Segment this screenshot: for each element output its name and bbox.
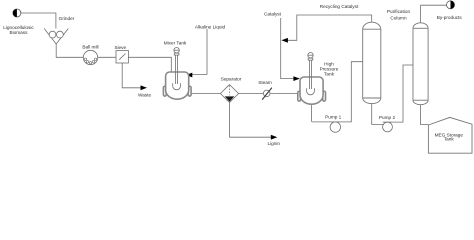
svg-text:Steam: Steam xyxy=(258,80,272,85)
svg-text:Pump 1: Pump 1 xyxy=(325,115,342,120)
svg-text:Biomass: Biomass xyxy=(10,30,29,35)
svg-text:Lignin: Lignin xyxy=(268,141,281,146)
svg-text:By-products: By-products xyxy=(437,15,463,20)
svg-text:Grinder: Grinder xyxy=(59,16,75,21)
svg-text:Separator: Separator xyxy=(221,77,242,82)
svg-text:Column: Column xyxy=(390,16,407,21)
svg-text:Waste: Waste xyxy=(138,92,152,97)
svg-text:Pump 2: Pump 2 xyxy=(379,115,396,120)
svg-text:Tank: Tank xyxy=(324,72,335,77)
svg-text:Purification: Purification xyxy=(387,9,411,14)
svg-text:Sieve: Sieve xyxy=(114,45,126,50)
svg-text:Mixer Tank: Mixer Tank xyxy=(164,41,187,46)
svg-text:Tank: Tank xyxy=(444,137,455,142)
svg-text:Ball mill: Ball mill xyxy=(82,45,98,50)
svg-text:Alkaline Liquid: Alkaline Liquid xyxy=(195,24,226,29)
svg-text:Recycling Catalyst: Recycling Catalyst xyxy=(320,4,359,9)
svg-text:Catalyst: Catalyst xyxy=(264,12,282,17)
